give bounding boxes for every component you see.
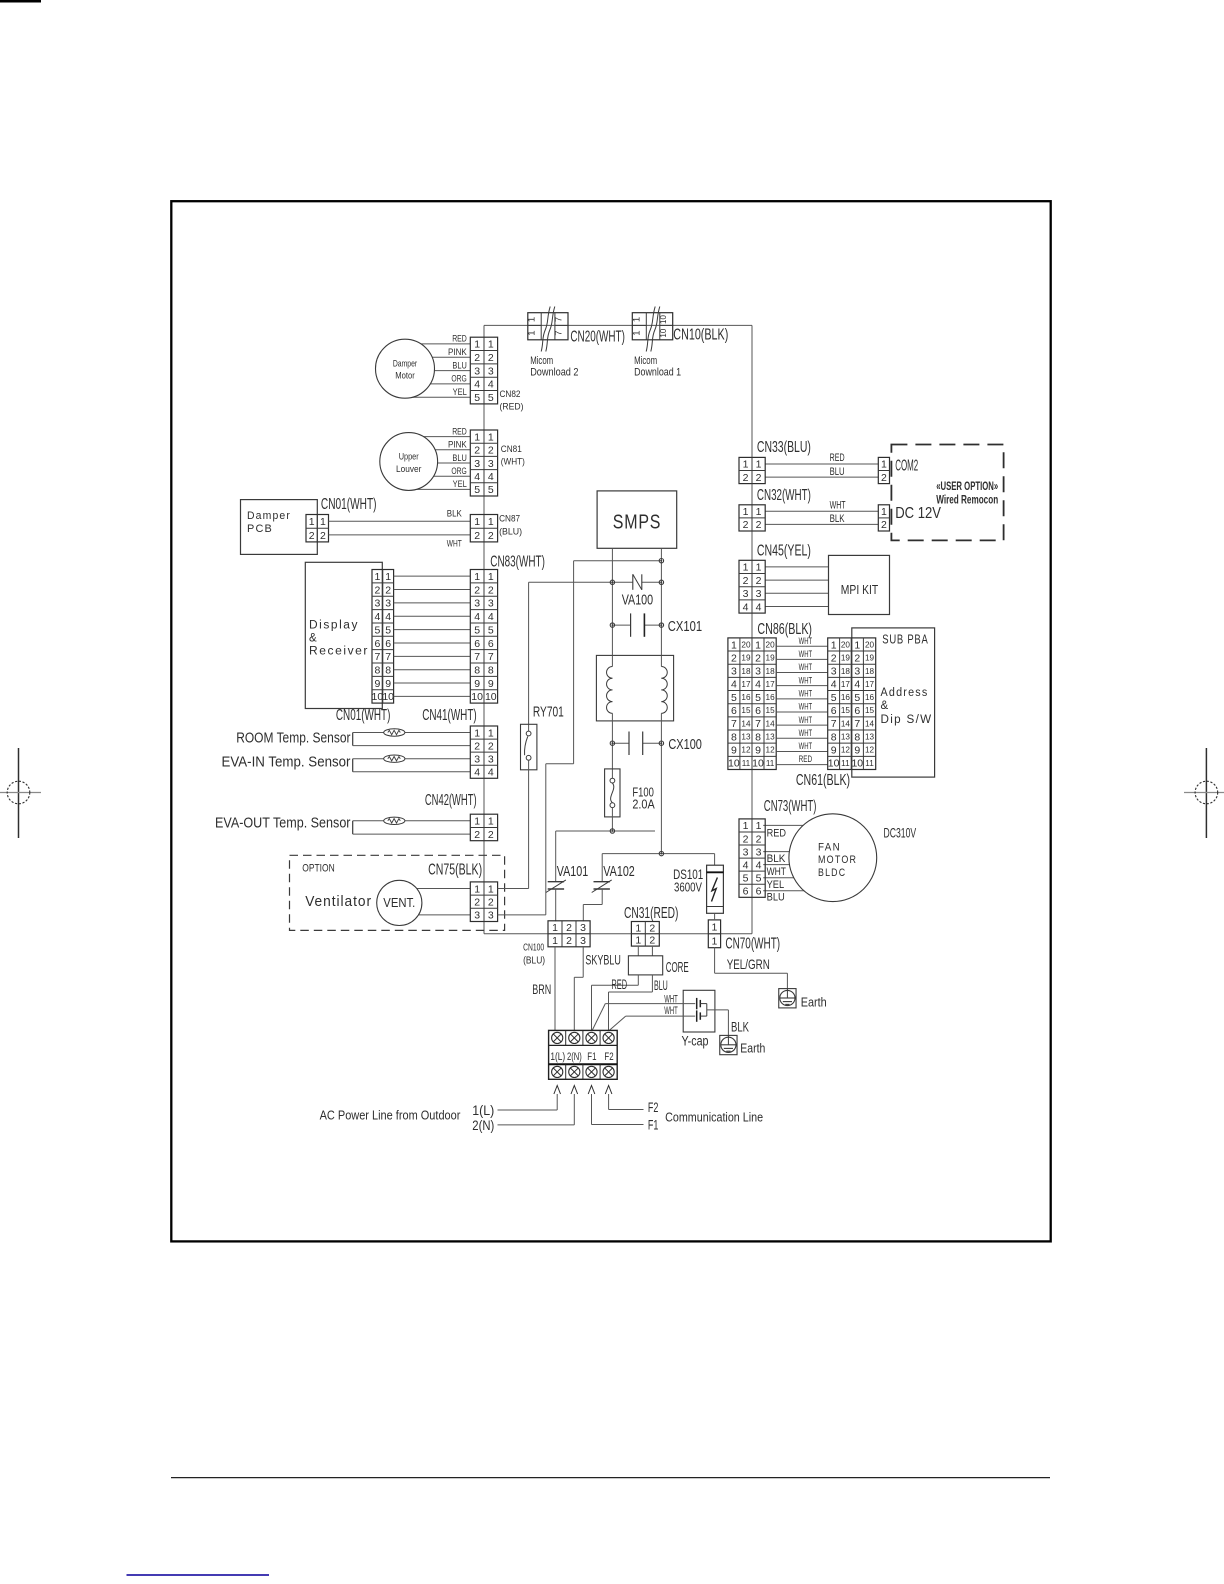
svg-text:15: 15 [766, 706, 776, 715]
label Y-cap [682, 1033, 709, 1048]
svg-text:4: 4 [474, 611, 480, 623]
svg-text:PCB: PCB [247, 523, 273, 535]
label CN61(BLK) [796, 772, 850, 789]
svg-text:18: 18 [766, 667, 776, 676]
svg-text:13: 13 [841, 733, 851, 742]
svg-text:8: 8 [474, 664, 480, 676]
svg-text:VA101: VA101 [557, 863, 589, 880]
label Communication Line [665, 1110, 763, 1125]
svg-text:1: 1 [756, 459, 762, 471]
svg-text:3: 3 [831, 666, 837, 678]
svg-text:3: 3 [385, 598, 391, 610]
svg-text:1: 1 [488, 816, 494, 828]
svg-text:1(L): 1(L) [472, 1102, 494, 1118]
wires CN86 to CN61 (WHT x9, RED) [776, 646, 828, 764]
svg-text:10: 10 [485, 691, 497, 703]
svg-text:1: 1 [474, 816, 480, 828]
wire filter right leg down [660, 721, 662, 854]
svg-text:CN33(BLU): CN33(BLU) [757, 439, 811, 456]
svg-text:DC 12V: DC 12V [895, 505, 941, 522]
wire SKYBLU CN100 pin3 to terminal 2(N) [574, 947, 583, 1030]
svg-text:1: 1 [488, 339, 494, 351]
main PCB bus loop (top wire, left bus, bottom wire, right bus) [484, 325, 752, 933]
svg-text:ORG: ORG [451, 374, 466, 384]
svg-text:RED: RED [799, 754, 813, 765]
label DC 12V [895, 505, 941, 522]
WHT wire diagonals into terminal F1/F2 [592, 1004, 626, 1031]
connector CN33 [739, 457, 765, 483]
label CN31(RED) [624, 905, 678, 922]
svg-text:20: 20 [741, 640, 751, 649]
svg-text:16: 16 [766, 693, 776, 702]
label CN41(WHT) [422, 707, 477, 724]
label CN73(WHT) [764, 798, 817, 815]
svg-text:7: 7 [554, 330, 565, 335]
svg-text:6: 6 [755, 705, 761, 717]
OPTION dashed box [290, 855, 505, 930]
svg-text:1: 1 [374, 571, 380, 583]
svg-text:2: 2 [756, 519, 762, 531]
svg-text:CN73(WHT): CN73(WHT) [764, 798, 817, 815]
svg-text:WHT: WHT [767, 866, 787, 878]
svg-text:2(N): 2(N) [567, 1051, 582, 1063]
wire F2 [609, 1109, 644, 1111]
svg-text:2: 2 [474, 584, 480, 596]
svg-text:1: 1 [385, 571, 391, 583]
svg-text:Earth: Earth [740, 1041, 765, 1055]
svg-text:CN45(YEL): CN45(YEL) [757, 542, 811, 559]
wire color labels RED PINK BLU ORG YEL (damper motor) [448, 334, 467, 397]
svg-text:BLU: BLU [452, 453, 466, 463]
label AC Power Line from Outdoor [320, 1107, 461, 1122]
wire labels WHT WHT [664, 994, 678, 1017]
svg-text:CORE: CORE [666, 959, 689, 976]
svg-text:CN61(BLK): CN61(BLK) [796, 772, 850, 789]
wire label BLU [654, 977, 668, 993]
svg-text:AC Power Line from Outdoor: AC Power Line from Outdoor [320, 1107, 461, 1122]
label 2(N) [472, 1117, 494, 1133]
svg-text:1: 1 [743, 562, 749, 574]
label CN75(BLK) [428, 862, 482, 879]
svg-text:12: 12 [865, 746, 875, 755]
svg-text:3600V: 3600V [674, 879, 702, 894]
connector CN41 [470, 726, 497, 779]
svg-text:4: 4 [731, 679, 737, 691]
earth symbol (Y-cap BLK) [720, 1035, 737, 1054]
svg-text:5: 5 [854, 692, 860, 704]
svg-text:Address: Address [881, 687, 929, 699]
svg-text:7: 7 [374, 651, 380, 663]
svg-text:VA100: VA100 [622, 591, 653, 608]
wires display connector to CN83 pins 1-10 [394, 576, 471, 696]
svg-text:7: 7 [474, 651, 480, 663]
svg-text:3: 3 [580, 935, 586, 947]
svg-text:2: 2 [474, 445, 480, 457]
svg-text:YEL/GRN: YEL/GRN [727, 956, 770, 972]
svg-text:1: 1 [712, 922, 718, 934]
svg-text:Motor: Motor [395, 371, 415, 382]
svg-text:BLK: BLK [447, 508, 462, 518]
svg-text:9: 9 [474, 678, 480, 690]
connector CN45 [739, 560, 765, 613]
svg-text:F1: F1 [587, 1051, 596, 1063]
svg-text:5: 5 [474, 392, 480, 404]
svg-text:1: 1 [756, 820, 762, 832]
svg-text:10: 10 [728, 758, 740, 770]
svg-text:WHT: WHT [799, 688, 813, 699]
svg-text:19: 19 [741, 654, 751, 663]
svg-text:WHT: WHT [799, 728, 813, 739]
wire F1 [592, 1124, 644, 1126]
svg-text:PINK: PINK [448, 440, 467, 450]
svg-text:CN82: CN82 [500, 389, 521, 400]
svg-text:15: 15 [841, 706, 851, 715]
svg-text:1: 1 [527, 317, 538, 322]
svg-text:10: 10 [828, 758, 840, 770]
svg-text:1: 1 [474, 727, 480, 739]
print registration black bar (top-left) [0, 0, 41, 3]
label CN33(BLU) [757, 439, 811, 456]
connector CN87 [470, 515, 497, 542]
svg-text:2: 2 [831, 652, 837, 664]
connector CN82 [470, 337, 497, 404]
label CN20(WHT) [570, 328, 625, 345]
AC terminal block 1(L) 2(N) F1 F2 [549, 1030, 618, 1079]
svg-text:WHT: WHT [799, 649, 813, 660]
svg-text:1: 1 [488, 516, 494, 528]
connector COM2 socket [878, 457, 889, 483]
svg-text:9: 9 [385, 678, 391, 690]
svg-text:EVA-IN Temp. Sensor: EVA-IN Temp. Sensor [222, 754, 351, 770]
svg-text:16: 16 [741, 693, 751, 702]
svg-text:18: 18 [841, 667, 851, 676]
svg-text:CX101: CX101 [668, 618, 702, 635]
svg-text:2: 2 [488, 445, 494, 457]
svg-text:ORG: ORG [451, 466, 466, 476]
svg-text:1: 1 [488, 431, 494, 443]
svg-text:5: 5 [756, 872, 762, 884]
svg-text:Louver: Louver [396, 464, 421, 475]
svg-text:1: 1 [474, 883, 480, 895]
wire label BLU [830, 466, 845, 478]
svg-text:2: 2 [474, 896, 480, 908]
svg-text:3: 3 [854, 666, 860, 678]
svg-text:1: 1 [488, 883, 494, 895]
svg-text:5: 5 [755, 692, 761, 704]
wire BRN CN100 pin1 to terminal 1(L) [554, 947, 556, 1030]
CN20 cell divider and rotated pin numbers [527, 317, 569, 336]
svg-text:13: 13 [741, 733, 751, 742]
USER OPTION dashed box [891, 445, 1003, 541]
svg-text:YEL: YEL [453, 387, 467, 397]
svg-text:16: 16 [841, 693, 851, 702]
svg-text:RED: RED [767, 828, 786, 840]
svg-text:6: 6 [374, 638, 380, 650]
svg-text:3: 3 [756, 846, 762, 858]
MPI KIT box [829, 555, 890, 614]
svg-text:BLDC: BLDC [818, 867, 846, 879]
svg-text:1: 1 [474, 571, 480, 583]
svg-text:2: 2 [756, 575, 762, 587]
wire label RED [830, 452, 845, 464]
svg-text:2: 2 [743, 575, 749, 587]
wire RED CORE to terminal F1 [592, 975, 639, 1031]
surge arrester DS101 3600V [673, 854, 723, 914]
svg-text:5: 5 [474, 484, 480, 496]
svg-text:18: 18 [741, 667, 751, 676]
svg-text:2: 2 [474, 352, 480, 364]
svg-text:9: 9 [755, 745, 761, 757]
relay RY701 [498, 582, 564, 888]
svg-text:20: 20 [766, 640, 776, 649]
svg-text:F1: F1 [648, 1117, 659, 1133]
CN10 cable break symbol [646, 307, 660, 352]
svg-text:1: 1 [743, 820, 749, 832]
label Micom Download 1 [634, 355, 681, 379]
svg-text:5: 5 [385, 624, 391, 636]
right registration mark [1184, 748, 1224, 838]
svg-text:9: 9 [854, 745, 860, 757]
svg-text:9: 9 [731, 745, 737, 757]
svg-text:17: 17 [841, 680, 851, 689]
label F2 [648, 1099, 659, 1115]
svg-text:WHT: WHT [664, 1005, 678, 1017]
svg-text:19: 19 [841, 654, 851, 663]
SMPS output legs [612, 548, 661, 655]
svg-text:Download 1: Download 1 [634, 367, 681, 379]
svg-text:4: 4 [488, 379, 494, 391]
svg-text:CN32(WHT): CN32(WHT) [757, 487, 811, 504]
svg-text:4: 4 [488, 611, 494, 623]
svg-text:CX100: CX100 [668, 736, 702, 753]
label CN70(WHT) [725, 935, 780, 952]
wire label WHT [447, 538, 462, 548]
svg-text:2: 2 [649, 922, 655, 934]
svg-text:1: 1 [881, 506, 887, 518]
svg-text:17: 17 [741, 680, 751, 689]
svg-text:4: 4 [474, 767, 480, 779]
svg-text:MPI KIT: MPI KIT [841, 582, 878, 597]
Upper Louver motor [380, 433, 438, 491]
svg-text:EVA-OUT Temp. Sensor: EVA-OUT Temp. Sensor [215, 816, 351, 832]
svg-text:YEL: YEL [453, 479, 467, 489]
wires CN01 to CN87 (BLK / WHT) [329, 521, 471, 535]
svg-text:2: 2 [488, 530, 494, 542]
svg-text:1: 1 [488, 727, 494, 739]
wire label YEL/GRN [727, 956, 770, 972]
connector CN75 [470, 882, 497, 922]
label 1(L) [472, 1102, 494, 1118]
svg-text:(BLU): (BLU) [523, 956, 545, 967]
CN10 cell divider and rotated pin numbers [631, 315, 672, 338]
svg-text:3: 3 [488, 598, 494, 610]
svg-text:2: 2 [566, 935, 572, 947]
svg-text:3: 3 [743, 588, 749, 600]
svg-text:ROOM Temp. Sensor: ROOM Temp. Sensor [236, 731, 350, 747]
wire 2(N) [498, 1124, 575, 1126]
svg-text:CN10(BLK): CN10(BLK) [673, 327, 728, 344]
svg-text:10: 10 [851, 758, 863, 770]
wires Damper Motor to CN82 pins 1-5 [405, 344, 470, 397]
svg-text:4: 4 [756, 859, 762, 871]
svg-text:2: 2 [320, 530, 326, 542]
svg-text:1: 1 [743, 459, 749, 471]
svg-text:10: 10 [752, 758, 764, 770]
svg-text:WHT: WHT [799, 636, 813, 647]
svg-text:4: 4 [854, 679, 860, 691]
svg-text:1: 1 [731, 639, 737, 651]
svg-text:6: 6 [731, 705, 737, 717]
svg-text:Y-cap: Y-cap [682, 1033, 709, 1048]
svg-text:6: 6 [488, 638, 494, 650]
wire label BRN [532, 981, 551, 997]
wire labels WHT/RED (CN86 harness) [799, 636, 813, 765]
CORE box [628, 947, 688, 976]
svg-text:2: 2 [881, 519, 887, 531]
svg-text:Upper: Upper [399, 451, 419, 462]
svg-text:5: 5 [731, 692, 737, 704]
svg-text:5: 5 [488, 484, 494, 496]
svg-text:2: 2 [488, 829, 494, 841]
svg-text:3: 3 [488, 910, 494, 922]
svg-text:1: 1 [320, 516, 326, 528]
svg-text:15: 15 [865, 706, 875, 715]
svg-text:11: 11 [766, 759, 775, 768]
svg-text:14: 14 [741, 719, 751, 728]
label CN81 (WHT) [501, 444, 525, 468]
svg-text:CN75(BLK): CN75(BLK) [428, 862, 482, 879]
connector CN61 [828, 638, 876, 770]
svg-text:3: 3 [580, 922, 586, 934]
svg-text:1: 1 [854, 639, 860, 651]
svg-text:CN01(WHT): CN01(WHT) [321, 496, 377, 513]
svg-text:3: 3 [474, 910, 480, 922]
fuse F100 2.0A [605, 769, 655, 831]
svg-text:20: 20 [841, 640, 851, 649]
svg-text:1: 1 [712, 936, 718, 948]
svg-text:BRN: BRN [532, 981, 551, 997]
svg-text:2: 2 [743, 472, 749, 484]
svg-text:2: 2 [566, 922, 572, 934]
svg-text:2: 2 [474, 740, 480, 752]
label CN100 (BLU) [523, 943, 545, 967]
svg-text:1(L): 1(L) [550, 1051, 565, 1063]
varistor VA102 [583, 854, 635, 922]
connector CN83 [470, 570, 497, 704]
varistor VA100 [529, 574, 664, 608]
svg-text:CN87: CN87 [499, 514, 520, 525]
svg-text:1: 1 [474, 339, 480, 351]
label SUB PBA [882, 631, 928, 646]
svg-text:4: 4 [755, 679, 761, 691]
svg-text:2: 2 [756, 472, 762, 484]
svg-text:1: 1 [631, 330, 642, 335]
svg-text:12: 12 [741, 746, 751, 755]
svg-text:3: 3 [474, 753, 480, 765]
svg-text:RED: RED [452, 334, 467, 344]
svg-text:1: 1 [756, 562, 762, 574]
svg-text:2: 2 [474, 530, 480, 542]
wire label BLK [830, 513, 845, 525]
svg-text:3: 3 [756, 588, 762, 600]
wires CN45 to MPI KIT [765, 567, 828, 607]
svg-text:1: 1 [488, 571, 494, 583]
node L: fuse output horizontal [556, 829, 655, 833]
svg-text:7: 7 [385, 651, 391, 663]
svg-text:8: 8 [385, 664, 391, 676]
connector CN01 on Damper PCB [306, 515, 329, 542]
connector CN32 [739, 505, 765, 531]
svg-text:OPTION: OPTION [302, 863, 334, 875]
svg-text:3: 3 [488, 458, 494, 470]
label CN83(WHT) [490, 553, 545, 570]
connector CN73 [739, 819, 765, 898]
svg-text:5: 5 [743, 872, 749, 884]
wire 1(L) [498, 1109, 558, 1111]
svg-text:1: 1 [881, 459, 887, 471]
label CN87 (BLU) [499, 514, 522, 538]
wires VENT to CN75 pins 1,3 [399, 889, 470, 915]
svg-text:5: 5 [488, 624, 494, 636]
svg-text:4: 4 [374, 611, 380, 623]
svg-text:12: 12 [841, 746, 851, 755]
connector CN20 Micom download 2 [528, 313, 568, 340]
svg-text:4: 4 [831, 679, 837, 691]
svg-text:7: 7 [488, 651, 494, 663]
svg-text:13: 13 [865, 733, 875, 742]
svg-text:5: 5 [488, 392, 494, 404]
svg-text:9: 9 [488, 678, 494, 690]
svg-text:10: 10 [382, 691, 394, 703]
svg-text:6: 6 [474, 638, 480, 650]
svg-text:RED: RED [452, 426, 467, 436]
svg-text:1: 1 [635, 922, 641, 934]
svg-text:19: 19 [865, 654, 875, 663]
svg-text:CN20(WHT): CN20(WHT) [570, 328, 625, 345]
label Micom Download 2 [530, 355, 578, 379]
junction at SMPS right leg / branch [659, 559, 663, 563]
svg-text:RED: RED [830, 452, 845, 464]
svg-text:Download 2: Download 2 [530, 367, 578, 379]
SMPS box [597, 491, 677, 548]
svg-text:RY701: RY701 [533, 704, 564, 721]
svg-text:14: 14 [865, 719, 875, 728]
svg-text:1: 1 [756, 506, 762, 518]
svg-text:1: 1 [474, 431, 480, 443]
connector CN42 [470, 814, 497, 841]
connector CN31 [631, 922, 659, 947]
wire color labels RED PINK BLU ORG YEL (upper louver) [448, 426, 467, 489]
svg-text:CN100: CN100 [523, 943, 544, 954]
label Earth (Y-cap) [740, 1041, 765, 1055]
svg-text:5: 5 [831, 692, 837, 704]
svg-text:5: 5 [474, 624, 480, 636]
label CN45(YEL) [757, 542, 811, 559]
CN20 cable break symbol [541, 307, 555, 352]
svg-text:2: 2 [309, 530, 315, 542]
svg-text:Micom: Micom [634, 355, 657, 367]
svg-text:F2: F2 [604, 1051, 613, 1063]
wire BLU CORE to terminal F2 [609, 975, 653, 1031]
label CN01(WHT) (damper pcb) [321, 496, 377, 513]
svg-text:BLU: BLU [830, 466, 845, 478]
svg-text:BLK: BLK [830, 513, 845, 525]
svg-text:Micom: Micom [530, 355, 553, 367]
wire label RED [611, 976, 627, 992]
capacitor CX100 [610, 732, 702, 756]
svg-text:&: & [881, 700, 889, 712]
svg-text:SMPS: SMPS [613, 511, 661, 534]
